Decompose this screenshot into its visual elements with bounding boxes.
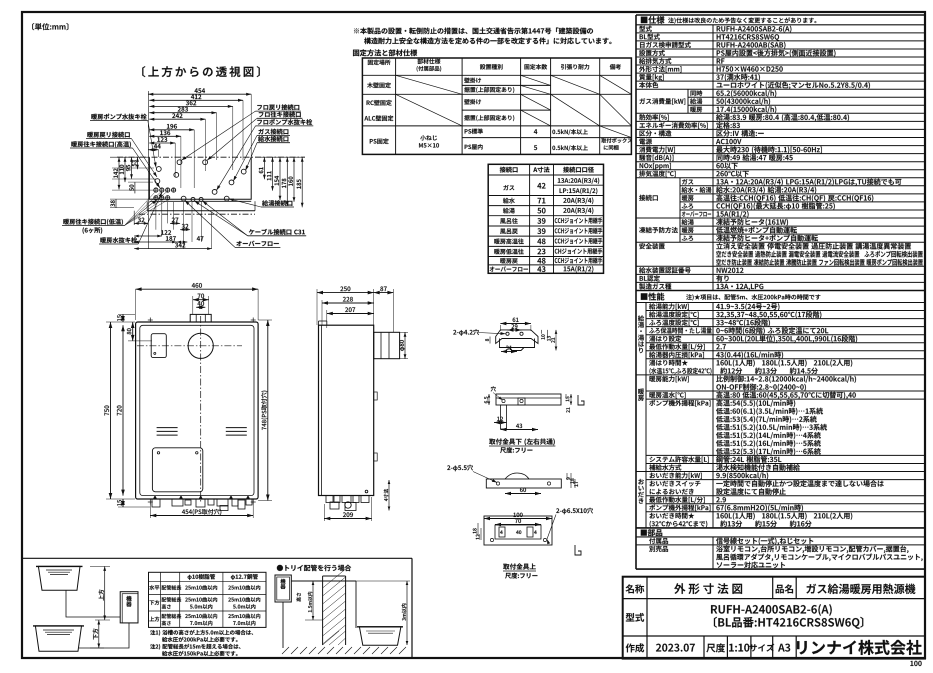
front view right dim 748 bbox=[267, 320, 269, 501]
front view bottom dim 454 bbox=[150, 515, 253, 517]
top view leader labels right bbox=[257, 104, 299, 110]
front view vents bbox=[157, 427, 178, 429]
ground hatching bbox=[282, 647, 289, 654]
wall right diagram bbox=[322, 576, 324, 645]
fix table title 固定方法と部材仕様 bbox=[353, 49, 417, 56]
bracket B clip icon bbox=[578, 395, 584, 405]
front view body bbox=[136, 322, 259, 499]
right bathtub bbox=[359, 627, 401, 645]
top view leader labels left bbox=[91, 114, 146, 120]
top view left dims bbox=[118, 157, 120, 189]
fix table diagonals bbox=[396, 75, 463, 94]
front view exhaust circle bbox=[188, 333, 213, 358]
torii piping lines bbox=[291, 580, 356, 582]
front view PS hole marks bbox=[148, 319, 153, 321]
torii piping title bbox=[277, 565, 351, 571]
side view bottom dim 209 bbox=[324, 518, 371, 520]
top view dimension ladder bbox=[148, 93, 251, 95]
top view low-temp ports 6x bbox=[154, 188, 158, 192]
bottom-left box bbox=[22, 557, 412, 559]
title block bbox=[623, 577, 925, 659]
label 取付金具上 bbox=[503, 563, 536, 569]
top view port extension lines bbox=[155, 202, 157, 230]
front view dim 460 bbox=[136, 288, 259, 290]
front view centerlines bbox=[200, 316, 202, 503]
side view body bbox=[319, 325, 374, 495]
dim 上方/下方 bbox=[104, 566, 106, 620]
front view dim 40 bbox=[196, 306, 205, 308]
piping left diagram bbox=[66, 590, 120, 617]
bracket upper D (top) bbox=[484, 516, 552, 545]
lower bathtub bbox=[35, 626, 81, 651]
torii dims bbox=[312, 581, 314, 620]
bracket lower (取付金具下) profile A bbox=[496, 330, 538, 344]
top view right dims bbox=[263, 157, 265, 179]
front view bottom fittings bbox=[152, 499, 160, 507]
side view duct dim φ80 bbox=[404, 332, 406, 358]
heater box left diagram bbox=[120, 592, 138, 623]
side view right small dim bbox=[388, 480, 390, 511]
bracket upper C (side profile) bbox=[486, 479, 561, 488]
bracket A dims bbox=[500, 323, 531, 325]
side view latches bbox=[374, 392, 378, 400]
front view left dims bbox=[122, 314, 124, 322]
front view dim 70 bbox=[193, 299, 209, 301]
bracket D dims bbox=[484, 518, 552, 520]
top view bottom dims bbox=[134, 222, 148, 224]
fix table bbox=[362, 58, 631, 154]
side view dims top bbox=[317, 292, 374, 294]
bracket lower side B bbox=[496, 394, 561, 405]
side view bottom fittings bbox=[326, 496, 333, 503]
top view ports bbox=[177, 160, 182, 165]
label 取付金具下 bbox=[489, 438, 555, 445]
side view duct bbox=[374, 332, 400, 358]
notes text bbox=[354, 27, 593, 34]
side view top step bbox=[318, 321, 320, 325]
piping table bbox=[149, 572, 267, 627]
spec table 仕様 bbox=[641, 16, 665, 24]
top view title 上方からの透視図 bbox=[142, 66, 260, 77]
top view body outline bbox=[117, 156, 305, 158]
upper bathtub bbox=[38, 566, 80, 590]
front view bottom panel bbox=[152, 448, 202, 492]
heater box right diagram bbox=[275, 575, 291, 602]
bracket B dims bbox=[488, 394, 490, 405]
front view exhaust stub bbox=[190, 314, 211, 322]
conn table 接続口 bbox=[488, 164, 603, 273]
piping notes bbox=[150, 630, 253, 636]
front view control box bbox=[151, 334, 166, 358]
bracket D clip icon bbox=[575, 545, 581, 555]
